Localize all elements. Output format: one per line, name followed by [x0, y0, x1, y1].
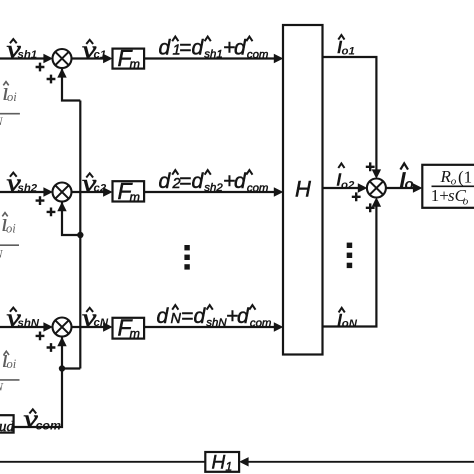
svg-text:com: com [247, 49, 269, 61]
svg-text:(1: (1 [458, 167, 472, 186]
svg-text:d: d [157, 305, 170, 328]
svg-text:R: R [440, 167, 452, 186]
svg-text:c1: c1 [94, 49, 107, 61]
svg-text:sh2: sh2 [204, 182, 223, 194]
svg-text:H: H [295, 177, 311, 202]
svg-text:d: d [192, 36, 205, 59]
svg-text:m: m [130, 327, 140, 341]
svg-text:oN: oN [342, 318, 358, 330]
svg-text:d: d [237, 305, 250, 328]
svg-text:o: o [405, 176, 414, 193]
svg-text:ud: ud [0, 419, 15, 435]
svg-text:H: H [212, 453, 226, 474]
svg-text:o: o [463, 196, 469, 208]
svg-text:oi: oi [6, 222, 16, 236]
svg-text:1: 1 [226, 460, 233, 474]
svg-text:d: d [234, 170, 247, 193]
svg-text:d: d [159, 170, 172, 193]
svg-text:o1: o1 [342, 46, 355, 58]
svg-text:sh1: sh1 [204, 49, 222, 61]
svg-text:=: = [179, 36, 191, 59]
svg-text:com: com [250, 318, 272, 330]
svg-text:sh2: sh2 [18, 183, 38, 195]
svg-text:d: d [159, 36, 172, 59]
svg-text:shN: shN [18, 318, 40, 330]
svg-text:com: com [247, 183, 269, 195]
svg-text:m: m [130, 58, 140, 72]
svg-text:N: N [171, 311, 182, 327]
svg-text:d: d [194, 305, 207, 328]
svg-text:shN: shN [206, 317, 227, 329]
svg-text:oi: oi [7, 357, 17, 371]
svg-text:o2: o2 [341, 179, 355, 191]
svg-text:d: d [234, 36, 247, 59]
svg-text:=: = [181, 305, 193, 328]
svg-text:oi: oi [7, 90, 17, 104]
svg-text:com: com [36, 419, 61, 433]
svg-text:m: m [130, 190, 140, 204]
svg-text:sh1: sh1 [18, 49, 38, 61]
svg-text:=: = [179, 170, 191, 193]
svg-text:d: d [192, 170, 205, 193]
svg-text:c2: c2 [94, 182, 107, 194]
svg-text:cN: cN [94, 317, 109, 329]
svg-text:1+: 1+ [431, 186, 449, 205]
